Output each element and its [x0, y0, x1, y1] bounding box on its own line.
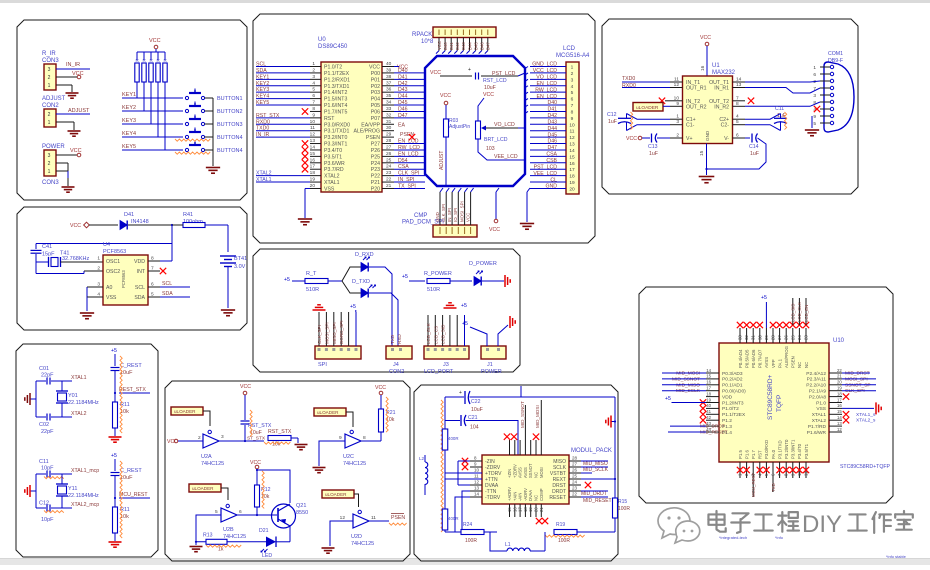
svg-text:104: 104: [470, 425, 479, 431]
svg-text:3: 3: [571, 77, 574, 83]
svg-text:BUTTON2: BUTTON2: [217, 109, 243, 115]
svg-text:13: 13: [837, 421, 842, 426]
svg-text:TXD: TXD: [390, 334, 395, 344]
svg-text:8: 8: [571, 109, 574, 115]
svg-text:13: 13: [569, 142, 575, 148]
svg-text:ALE/PROG: ALE/PROG: [784, 345, 789, 368]
svg-text:4: 4: [736, 114, 739, 120]
svg-text:14: 14: [310, 144, 316, 150]
svg-text:17: 17: [837, 397, 842, 402]
svg-text:P3.3/INT1: P3.3/INT1: [791, 439, 796, 459]
svg-text:AVSS: AVSS: [518, 467, 523, 478]
svg-text:RXD0: RXD0: [622, 83, 636, 89]
svg-text:R13: R13: [203, 533, 213, 539]
svg-text:MOSI_SPI: MOSI_SPI: [459, 201, 464, 222]
svg-text:16: 16: [706, 380, 711, 385]
svg-text:10: 10: [569, 122, 575, 128]
svg-text:D40: D40: [443, 42, 448, 50]
svg-text:33: 33: [738, 335, 743, 340]
svg-text:COMP: COMP: [539, 488, 544, 501]
svg-text:LCD_SID: LCD_SID: [791, 303, 796, 322]
svg-text:D_POWER: D_POWER: [469, 261, 497, 267]
svg-text:U2A: U2A: [201, 454, 212, 460]
svg-text:+5: +5: [111, 348, 117, 354]
svg-text:10pF: 10pF: [41, 517, 54, 523]
svg-text:R41: R41: [183, 212, 193, 218]
svg-text:400R: 400R: [448, 516, 459, 521]
svg-text:VCC: VCC: [437, 41, 442, 50]
svg-text:AVSS: AVSS: [523, 467, 528, 478]
svg-text:C13: C13: [648, 144, 658, 150]
svg-text:U10: U10: [833, 338, 845, 344]
svg-text:NC: NC: [804, 362, 809, 368]
svg-text:P21: P21: [371, 180, 380, 186]
svg-text:11: 11: [371, 515, 376, 521]
svg-text:COM1: COM1: [828, 51, 843, 57]
svg-text:+5: +5: [761, 295, 767, 301]
svg-text:C22: C22: [471, 399, 481, 405]
svg-text:PCF8563: PCF8563: [103, 249, 126, 255]
svg-text:TQFP: TQFP: [776, 395, 783, 412]
svg-text:510R: 510R: [427, 287, 440, 293]
svg-text:SDA: SDA: [162, 291, 173, 297]
svg-text:23: 23: [572, 486, 578, 491]
svg-text:SDA: SDA: [134, 295, 145, 301]
svg-text:CLK_SPI: CLK_SPI: [441, 204, 446, 222]
svg-text:RESET: RESET: [549, 495, 566, 501]
svg-text:25: 25: [386, 157, 392, 163]
svg-text:P26: P26: [371, 148, 380, 154]
svg-text:KEY3: KEY3: [122, 118, 136, 124]
svg-text:VSS: VSS: [106, 295, 117, 301]
svg-text:17: 17: [569, 167, 575, 173]
svg-text:C14: C14: [749, 144, 759, 150]
svg-text:9: 9: [312, 112, 315, 118]
svg-text:30: 30: [757, 335, 762, 340]
svg-text:*info: *info: [775, 535, 784, 540]
svg-text:LCD_CLK: LCD_CLK: [797, 302, 802, 322]
svg-text:J4: J4: [393, 362, 399, 368]
svg-text:J3: J3: [443, 362, 449, 368]
svg-text:V-: V-: [724, 136, 729, 142]
svg-text:P3.6/WR: P3.6/WR: [324, 161, 345, 167]
svg-text:POWER: POWER: [42, 144, 65, 150]
svg-text:D47: D47: [486, 42, 491, 50]
svg-text:ADJUST: ADJUST: [439, 151, 445, 170]
svg-text:9: 9: [571, 116, 574, 122]
svg-text:DIY: DIY: [802, 511, 842, 538]
svg-text:5: 5: [571, 90, 574, 96]
svg-text:P2.2/A10: P2.2/A10: [806, 383, 826, 389]
svg-text:5: 5: [736, 119, 739, 125]
svg-text:P1.0/T2: P1.0/T2: [722, 406, 739, 412]
svg-text:R19: R19: [556, 522, 565, 528]
svg-text:24: 24: [386, 164, 392, 170]
svg-text:18: 18: [523, 507, 528, 512]
svg-text:D44: D44: [467, 42, 472, 50]
svg-text:21: 21: [837, 374, 842, 379]
svg-text:12: 12: [837, 427, 842, 432]
svg-text:74HC125: 74HC125: [343, 461, 366, 467]
svg-text:R15: R15: [618, 499, 627, 505]
svg-text:VCC: VCC: [70, 148, 82, 154]
svg-text:MOSI: MOSI: [539, 467, 544, 478]
svg-text:P20: P20: [371, 186, 380, 192]
svg-text:XTAL2_s: XTAL2_s: [856, 418, 876, 424]
svg-text:14: 14: [837, 415, 842, 420]
svg-text:1: 1: [48, 169, 51, 175]
svg-text:VEE_LCD: VEE_LCD: [494, 154, 518, 160]
svg-text:P04: P04: [371, 97, 380, 103]
svg-text:OUT_R1: OUT_R1: [686, 86, 707, 92]
svg-text:AdjustPin: AdjustPin: [449, 124, 470, 130]
svg-text:39: 39: [386, 67, 392, 73]
svg-text:D_RXD: D_RXD: [355, 252, 374, 258]
svg-text:74HC125: 74HC125: [201, 461, 224, 467]
svg-text:P0.2/AD2: P0.2/AD2: [722, 377, 743, 383]
svg-text:510R: 510R: [306, 287, 319, 293]
svg-text:26: 26: [572, 468, 578, 473]
svg-text:41: 41: [706, 409, 711, 414]
svg-text:P1.7/RD: P1.7/RD: [808, 424, 827, 430]
svg-text:P1.0/T2: P1.0/T2: [324, 65, 342, 71]
svg-text:Q21: Q21: [296, 503, 306, 509]
svg-text:P3.0/RXD: P3.0/RXD: [764, 440, 769, 459]
svg-text:XTAL1_s: XTAL1_s: [856, 412, 876, 418]
svg-text:P1.1/T2EX: P1.1/T2EX: [722, 412, 746, 418]
svg-text:BT41: BT41: [234, 256, 247, 262]
svg-text:+ADRV: +ADRV: [507, 487, 512, 501]
svg-text:MAX232: MAX232: [712, 70, 736, 76]
svg-text:P2.3/A11: P2.3/A11: [807, 377, 827, 383]
svg-text:18: 18: [706, 391, 711, 396]
svg-text:23: 23: [804, 335, 809, 340]
svg-text:DS89C450: DS89C450: [318, 44, 348, 50]
svg-text:+5: +5: [350, 304, 356, 310]
svg-text:21: 21: [539, 507, 544, 512]
svg-text:26: 26: [784, 335, 789, 340]
svg-text:1: 1: [312, 61, 315, 67]
svg-text:12: 12: [310, 132, 316, 138]
svg-text:L2: L2: [419, 456, 425, 461]
svg-text:Y11: Y11: [68, 486, 77, 492]
svg-text:10uF: 10uF: [484, 85, 496, 91]
svg-text:9: 9: [339, 435, 342, 441]
svg-text:A0: A0: [106, 285, 112, 291]
svg-text:D42: D42: [455, 42, 460, 50]
svg-text:P1.6/INT4: P1.6/INT4: [324, 103, 347, 109]
svg-text:XTAL1_mcp: XTAL1_mcp: [71, 468, 99, 474]
svg-text:LCD_SID: LCD_SID: [441, 324, 446, 344]
svg-text:LCD_CS: LCD_CS: [433, 326, 438, 344]
svg-text:SPI: SPI: [318, 362, 327, 368]
svg-text:PSEN: PSEN: [791, 356, 796, 368]
svg-text:C12: C12: [39, 501, 49, 507]
svg-text:22.1184MHz: 22.1184MHz: [68, 493, 99, 499]
svg-text:TXD0: TXD0: [622, 76, 635, 82]
svg-text:32.768KHz: 32.768KHz: [62, 256, 89, 262]
svg-text:uLOADER: uLOADER: [174, 409, 196, 414]
svg-text:RST: RST: [758, 450, 763, 459]
svg-text:VCC: VCC: [626, 136, 637, 142]
svg-text:CMP: CMP: [414, 213, 427, 219]
svg-text:P1.1/T2EX: P1.1/T2EX: [324, 71, 350, 77]
svg-text:CON2: CON2: [42, 103, 59, 109]
svg-text:8: 8: [363, 435, 366, 441]
svg-text:12: 12: [340, 515, 346, 521]
svg-text:IN_R2: IN_R2: [714, 104, 729, 110]
svg-text:CON3: CON3: [42, 180, 59, 186]
svg-text:24: 24: [797, 335, 802, 340]
svg-text:uLOADER: uLOADER: [636, 105, 659, 111]
svg-text:OSC1: OSC1: [106, 259, 120, 265]
svg-text:28: 28: [771, 335, 776, 340]
svg-text:Y01: Y01: [68, 393, 78, 399]
svg-text:GND: GND: [705, 130, 710, 141]
svg-text:34: 34: [386, 100, 392, 106]
svg-text:RST: RST: [324, 116, 335, 122]
svg-text:C41: C41: [42, 244, 52, 250]
svg-text:14: 14: [706, 368, 711, 373]
svg-text:XTAL1: XTAL1: [812, 412, 827, 418]
svg-text:POWER: POWER: [481, 369, 502, 375]
svg-text:P0.7/AD7: P0.7/AD7: [758, 349, 763, 368]
svg-text:P01: P01: [371, 77, 380, 83]
svg-text:5: 5: [813, 121, 816, 127]
svg-text:12: 12: [674, 82, 680, 88]
svg-text:13: 13: [310, 138, 316, 144]
svg-text:P3.4/T0: P3.4/T0: [324, 148, 342, 154]
svg-text:27: 27: [386, 144, 392, 150]
svg-text:SCL: SCL: [162, 281, 172, 287]
svg-text:3.0V: 3.0V: [234, 264, 246, 270]
svg-text:PSEN: PSEN: [366, 135, 380, 141]
svg-text:P1.6: P1.6: [744, 450, 749, 459]
svg-text:VCC: VCC: [72, 71, 84, 77]
svg-text:D46: D46: [480, 42, 485, 50]
svg-text:ADJUST: ADJUST: [42, 96, 66, 102]
svg-text:MOSI_SPI: MOSI_SPI: [324, 322, 329, 344]
svg-text:C11: C11: [39, 459, 49, 465]
svg-text:U1: U1: [712, 63, 720, 69]
svg-text:VSS: VSS: [324, 186, 335, 192]
svg-text:P1.2/RXD1: P1.2/RXD1: [324, 77, 350, 83]
svg-text:22: 22: [572, 492, 578, 497]
svg-text:KEY2: KEY2: [122, 105, 136, 111]
svg-text:2: 2: [198, 435, 201, 441]
svg-text:LCD_CLK: LCD_CLK: [426, 322, 431, 344]
svg-text:R24: R24: [463, 522, 472, 528]
svg-text:10: 10: [674, 95, 680, 101]
svg-text:24: 24: [572, 480, 578, 485]
svg-text:MCU_REST: MCU_REST: [119, 492, 148, 498]
svg-text:3: 3: [676, 119, 679, 125]
svg-text:2: 2: [48, 161, 51, 167]
svg-text:P3.1/TXD: P3.1/TXD: [777, 440, 782, 459]
svg-text:1uF: 1uF: [608, 119, 617, 125]
svg-text:P0.4/AD4: P0.4/AD4: [738, 349, 743, 368]
svg-text:74HC125: 74HC125: [351, 541, 374, 547]
svg-text:MCG516-A4: MCG516-A4: [556, 53, 590, 59]
svg-text:P05: P05: [371, 103, 380, 109]
svg-text:LED: LED: [262, 553, 272, 559]
svg-text:XTAL2: XTAL2: [324, 174, 340, 180]
svg-text:U2C: U2C: [343, 454, 354, 460]
svg-text:INT: INT: [137, 269, 146, 275]
svg-text:uLOADER: uLOADER: [192, 486, 214, 491]
svg-text:P3.2/INT0: P3.2/INT0: [324, 135, 347, 141]
svg-text:17: 17: [310, 164, 316, 170]
svg-text:RPACK: RPACK: [412, 32, 432, 38]
svg-text:5: 5: [312, 87, 315, 93]
svg-text:13: 13: [736, 82, 742, 88]
svg-text:27: 27: [572, 462, 578, 467]
svg-text:P07: P07: [371, 116, 380, 122]
svg-text:+5: +5: [461, 303, 467, 309]
svg-text:13: 13: [474, 486, 480, 491]
svg-text:PA.0: PA.0: [771, 449, 776, 459]
svg-text:RXD: RXD: [397, 334, 402, 344]
svg-text:14: 14: [474, 492, 480, 497]
svg-text:21: 21: [386, 183, 392, 189]
svg-text:P3.2/INT0: P3.2/INT0: [784, 439, 789, 459]
svg-text:-ADRV: -ADRV: [523, 488, 528, 501]
svg-text:+5: +5: [111, 453, 117, 459]
svg-text:19: 19: [706, 397, 711, 402]
svg-text:1: 1: [813, 65, 816, 71]
svg-text:VCC: VCC: [430, 70, 441, 76]
svg-text:IN_IR: IN_IR: [66, 62, 80, 68]
svg-text:2: 2: [312, 67, 315, 73]
svg-text:28: 28: [572, 456, 578, 461]
svg-text:XTAL1: XTAL1: [324, 180, 340, 186]
svg-text:400R: 400R: [448, 436, 459, 441]
svg-text:VCC: VCC: [369, 65, 380, 71]
svg-text:42: 42: [706, 415, 711, 420]
svg-text:P1.2: P1.2: [722, 418, 732, 424]
svg-text:40: 40: [386, 61, 392, 67]
svg-text:100R: 100R: [558, 538, 570, 544]
svg-text:P2.4/A12: P2.4/A12: [806, 371, 826, 377]
svg-text:C12: C12: [607, 112, 617, 118]
svg-text:TXD: TXD: [771, 483, 776, 492]
svg-text:16: 16: [569, 161, 575, 167]
svg-text:R_IR: R_IR: [42, 51, 56, 57]
svg-text:27: 27: [777, 335, 782, 340]
svg-text:+AIN: +AIN: [512, 492, 517, 501]
svg-text:OUT_R2: OUT_R2: [686, 104, 707, 110]
svg-text:P3.3/INT1: P3.3/INT1: [324, 142, 347, 148]
svg-text:MCU_REST: MCU_REST: [751, 473, 756, 497]
svg-text:103: 103: [486, 146, 495, 152]
svg-text:40: 40: [706, 403, 711, 408]
svg-text:D43: D43: [461, 42, 466, 50]
svg-text:4: 4: [571, 84, 574, 90]
svg-text:10: 10: [310, 119, 316, 125]
svg-text:MODUL_PACK: MODUL_PACK: [571, 448, 612, 454]
svg-text:REST_STX: REST_STX: [119, 387, 146, 393]
svg-text:15pF: 15pF: [42, 252, 55, 258]
svg-text:3: 3: [221, 434, 224, 440]
svg-text:P0.5/AD5: P0.5/AD5: [744, 349, 749, 368]
svg-text:33: 33: [386, 106, 392, 112]
svg-text:IN4148: IN4148: [131, 219, 149, 225]
svg-text:+ZIN: +ZIN: [507, 469, 512, 478]
svg-text:+5: +5: [402, 274, 408, 280]
svg-text:P3.5/T1: P3.5/T1: [804, 443, 809, 459]
svg-text:P1.4/INT2: P1.4/INT2: [324, 90, 347, 96]
svg-text:19: 19: [528, 507, 533, 512]
svg-text:VCC: VCC: [167, 439, 178, 445]
svg-text:31: 31: [751, 335, 756, 340]
svg-text:P24: P24: [371, 161, 380, 167]
svg-text:C01: C01: [39, 366, 49, 372]
svg-text:20: 20: [534, 507, 539, 512]
svg-text:ALE/PROG: ALE/PROG: [353, 129, 380, 135]
svg-text:XTAL2: XTAL2: [812, 418, 827, 424]
svg-text:P1.0: P1.0: [816, 400, 826, 406]
svg-text:D_TXD: D_TXD: [352, 279, 370, 285]
svg-text:P3.0/RXD0: P3.0/RXD0: [324, 122, 350, 128]
svg-text:LCD_PORT: LCD_PORT: [424, 369, 454, 375]
svg-text:15: 15: [507, 507, 512, 512]
svg-text:P3.1/TXD1: P3.1/TXD1: [324, 129, 349, 135]
svg-text:7: 7: [736, 95, 739, 101]
svg-text:3: 3: [813, 93, 816, 99]
svg-text:uLOADER: uLOADER: [325, 492, 347, 497]
svg-text:U2D: U2D: [351, 534, 362, 540]
svg-text:P0.1/AD1: P0.1/AD1: [722, 383, 743, 389]
svg-text:5: 5: [215, 509, 218, 515]
svg-text:P0.0/(AD0): P0.0/(AD0): [722, 389, 746, 395]
svg-text:P27: P27: [371, 142, 380, 148]
svg-text:20: 20: [310, 183, 316, 189]
svg-text:+5: +5: [665, 396, 671, 402]
svg-text:1uF: 1uF: [649, 151, 658, 157]
svg-text:VCC: VCC: [700, 35, 711, 41]
svg-text:RST_LCD: RST_LCD: [483, 78, 507, 84]
svg-text:P25: P25: [371, 154, 380, 160]
svg-text:22.1184MHz: 22.1184MHz: [68, 400, 99, 406]
svg-text:U4: U4: [103, 242, 110, 248]
svg-text:+: +: [468, 67, 471, 73]
svg-text:D41: D41: [124, 212, 134, 218]
svg-text:22: 22: [386, 177, 392, 183]
svg-text:8550: 8550: [296, 510, 308, 516]
svg-text:P3.5/T1: P3.5/T1: [324, 154, 342, 160]
svg-text:15: 15: [837, 409, 842, 414]
svg-text:+: +: [459, 390, 462, 396]
svg-text:12: 12: [474, 480, 480, 485]
svg-text:P1.5: P1.5: [738, 450, 743, 459]
svg-text:25: 25: [790, 335, 795, 340]
svg-text:2: 2: [48, 112, 51, 118]
svg-text:XTAL2: XTAL2: [71, 411, 87, 417]
svg-text:2: 2: [571, 71, 574, 77]
svg-text:VCC: VCC: [465, 213, 470, 222]
svg-text:10uF: 10uF: [471, 407, 483, 413]
svg-text:3: 3: [48, 153, 51, 159]
svg-text:P23: P23: [371, 167, 380, 173]
svg-text:7: 7: [571, 103, 574, 109]
svg-text:ST_STX: ST_STX: [247, 436, 266, 442]
svg-text:29: 29: [386, 132, 392, 138]
svg-text:3: 3: [48, 67, 51, 73]
svg-text:V+: V+: [686, 136, 693, 142]
svg-text:12: 12: [569, 135, 575, 141]
svg-text:SSNOT: SSNOT: [528, 463, 533, 478]
svg-text:P02: P02: [371, 84, 380, 90]
